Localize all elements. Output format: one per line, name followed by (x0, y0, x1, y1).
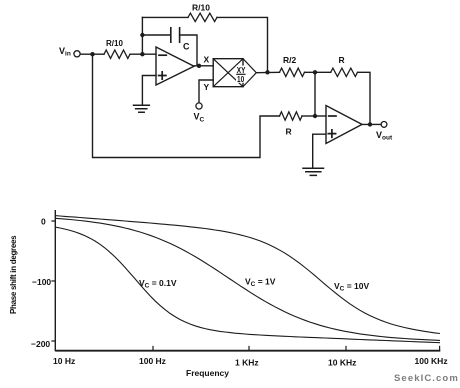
svg-text:−200: −200 (31, 339, 50, 349)
svg-text:Vout: Vout (376, 130, 393, 142)
wire cap right lead down to X node (180, 35, 197, 66)
wire feedback R to output drop (358, 72, 371, 124)
ground (U3 non-inverting) (303, 168, 324, 175)
wire feedback top run (142, 16, 188, 18)
svg-text:VC = 10V: VC = 10V (334, 281, 370, 293)
plus sign U3 (328, 130, 335, 137)
svg-text:0: 0 (41, 217, 46, 227)
node feedback top (313, 70, 317, 74)
white backing for XY/10 label (236, 66, 246, 83)
wire U1 output to multiplier X input (194, 65, 213, 67)
wire lower R to inverting node (302, 115, 315, 117)
ground (U1 non-inverting) (134, 105, 150, 112)
wire feedback top to right drop (217, 17, 268, 72)
node inverting input U3 (313, 114, 317, 118)
wire multiplier output to R/2 (256, 71, 279, 73)
multiplier output tip (243, 59, 256, 87)
wire long feedback from Vin (93, 54, 280, 157)
svg-text:C: C (183, 42, 190, 52)
node multiplier output (265, 70, 269, 74)
chart axes (51, 210, 440, 351)
x ticks (153, 346, 440, 351)
svg-text:R/10: R/10 (192, 3, 210, 13)
multiplier diagonals (213, 59, 243, 87)
svg-text:100 Hz: 100 Hz (139, 356, 166, 366)
svg-text:VC = 0.1V: VC = 0.1V (139, 278, 177, 290)
svg-text:R/10: R/10 (106, 39, 123, 48)
x-axis (55, 350, 440, 352)
svg-text:SeekIC.com: SeekIC.com (394, 373, 459, 384)
curve VC=0.1V (55, 227, 440, 343)
svg-text:R: R (286, 127, 292, 137)
svg-text:Y: Y (204, 82, 210, 92)
op-amp U3 (326, 106, 362, 144)
svg-text:−100: −100 (32, 277, 51, 287)
wire Vin to R1 (80, 53, 104, 55)
wire summing node down (314, 72, 316, 116)
wire node to U3 inverting input (315, 115, 326, 117)
minus sign U3 (329, 115, 336, 117)
terminal VC (196, 103, 202, 109)
wire U3 plus input to ground (313, 134, 326, 168)
wire U1 plus input to ground (142, 76, 156, 106)
svg-text:Vin: Vin (59, 46, 71, 58)
op-amp U1 (156, 47, 194, 85)
resistor R/10 (feedback) (188, 13, 217, 21)
curve VC=10V (55, 216, 440, 334)
svg-text:R/2: R/2 (283, 55, 297, 65)
wire R/2 to summing node (305, 71, 331, 73)
resistor R/10 (input) (104, 50, 130, 58)
svg-text:Frequency: Frequency (186, 368, 229, 378)
resistor R (lower) (280, 112, 303, 120)
node X (197, 64, 201, 68)
y-axis (54, 210, 56, 351)
plus sign U1 (159, 72, 166, 79)
svg-text:VC: VC (194, 112, 205, 124)
svg-text:VC = 1V: VC = 1V (245, 277, 276, 289)
multiplier U2 box (213, 59, 243, 87)
label XY/10 (237, 65, 246, 84)
svg-text:Phase shift in degrees: Phase shift in degrees (9, 235, 18, 314)
terminal Vin (74, 51, 80, 57)
minus sign U1 (159, 54, 166, 56)
svg-text:X: X (204, 55, 210, 65)
wire R1 to inverting node (130, 53, 156, 55)
node cap tee (140, 33, 144, 37)
node output (368, 122, 372, 126)
svg-text:1 KHz: 1 KHz (235, 358, 259, 368)
node inverting input U1 (140, 52, 144, 56)
node at Vin branch (90, 52, 94, 56)
resistor R (feedback) (331, 68, 358, 76)
svg-text:100 KHz: 100 KHz (415, 356, 448, 366)
wire cap left lead (142, 34, 170, 36)
wire U3 output to Vout (362, 123, 381, 125)
wire Y input (199, 80, 213, 103)
capacitor C (171, 28, 180, 42)
fraction bar XY/10 (236, 73, 245, 75)
svg-text:10 Hz: 10 Hz (53, 356, 75, 366)
resistor R/2 (280, 68, 305, 76)
curve VC=1V (55, 218, 440, 340)
terminal Vout (381, 122, 387, 128)
svg-text:10: 10 (237, 74, 244, 84)
svg-text:10 KHz: 10 KHz (328, 358, 356, 368)
y ticks (51, 221, 55, 341)
wire inverting node up to cap tee (141, 17, 143, 54)
svg-text:R: R (339, 55, 345, 65)
